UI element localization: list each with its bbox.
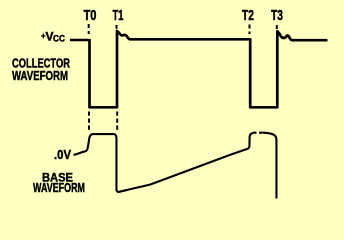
svg-text:T3: T3 (271, 7, 283, 24)
dashed section on top of second hump (253, 132, 263, 134)
dashed line T1 column between waveforms (116, 112, 118, 131)
base waveform: rise at T2, rounded top (partly dashed), drop at T3 (248, 133, 253, 149)
svg-text:WAVEFORM: WAVEFORM (33, 181, 85, 195)
dashed timing line below T1 (upper) (116, 25, 118, 29)
svg-text:T1: T1 (113, 7, 124, 24)
svg-text:CC: CC (53, 34, 65, 45)
base waveform: 0V lead-in, hump at T0-T1, drop at T1, rising ramp to T2 (74, 134, 249, 192)
dashed timing line below T2 (upper) (249, 25, 251, 35)
dashed timing line below T0 (upper) (88, 24, 90, 34)
collector waveform: drop at T0, bottom, rise at T1 with ringing, flat top to T2 (90, 31, 251, 107)
svg-text:T0: T0 (84, 7, 97, 24)
base waveform: solid right part of second hump and final drop at T3 (263, 133, 277, 199)
svg-text:.0V: .0V (54, 148, 72, 162)
svg-text:T2: T2 (242, 7, 254, 24)
svg-text:WAVEFORM: WAVEFORM (12, 68, 68, 83)
label BASE WAVEFORM (33, 171, 85, 196)
label +Vcc (41, 30, 65, 45)
collector waveform: Vcc segment before T0 (70, 39, 90, 41)
collector waveform: drop at T2, bottom, rise at T3 with ringing, flat to right end (250, 31, 327, 107)
dashed line T0 column between waveforms (88, 112, 90, 132)
dashed timing line below T3 (upper) (276, 25, 278, 29)
label COLLECTOR WAVEFORM (12, 56, 70, 84)
